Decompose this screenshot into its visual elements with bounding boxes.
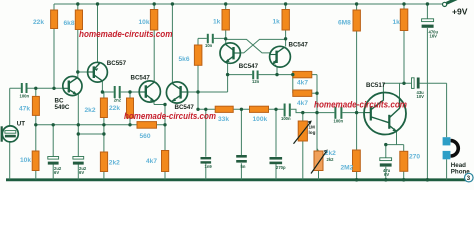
resistor R 22k (33, 10, 58, 29)
wire Q6 emitter column (275, 65, 277, 75)
wire 4k7B right link (312, 92, 317, 94)
svg-text:BC547: BC547 (289, 42, 309, 49)
wire mic column (9, 88, 11, 179)
wire 10n row (198, 37, 226, 39)
svg-text:1k: 1k (213, 19, 221, 26)
transistor U1 BC517 darlington (364, 93, 406, 135)
microphone UT electret (1, 121, 26, 142)
svg-text:BC517: BC517 (366, 82, 386, 89)
wire headphone column (446, 159, 448, 179)
svg-text:560: 560 (140, 133, 151, 140)
resistor R 270 (400, 151, 421, 171)
headphone jack (443, 137, 471, 175)
svg-text:10V: 10V (417, 94, 425, 99)
svg-text:100n: 100n (334, 119, 344, 124)
wire Q2 base branch (78, 71, 88, 73)
svg-text:BC547: BC547 (239, 63, 259, 70)
preset 2k2 (311, 150, 336, 174)
resistor R 4k7 lower horizontal (293, 90, 312, 107)
wire cross couple B to Q5 (240, 39, 285, 53)
svg-text:22k: 22k (33, 19, 44, 26)
switch S1 power (443, 0, 460, 7)
wire 470u column (426, 4, 428, 180)
svg-text:4k7: 4k7 (297, 80, 308, 87)
capacitor C 2u2 second electrolytic (73, 157, 87, 175)
svg-text:5k6: 5k6 (179, 56, 190, 63)
wire pot 1M column (302, 113, 304, 180)
wire cap1 column (52, 125, 54, 180)
resistor R 33k (215, 106, 233, 123)
resistor R 10k top (139, 10, 158, 31)
svg-text:2k2: 2k2 (109, 159, 120, 166)
wire 1k2 node B column (285, 4, 287, 47)
wire mixer row (198, 109, 364, 112)
resistor R 47k (19, 96, 39, 115)
wire 1k3 column (403, 4, 405, 83)
svg-text:100n: 100n (281, 116, 291, 121)
wire Q2 collector (101, 81, 103, 92)
svg-text:100k: 100k (253, 116, 268, 123)
transistor Q6 BC547 (270, 46, 291, 67)
capacitor C 5n (236, 155, 247, 169)
wire 12n row (228, 74, 293, 76)
wire 6k8 column / Q1 collector (77, 4, 79, 78)
svg-text:47k: 47k (19, 105, 30, 112)
wire cross couple A to Q6 (226, 39, 270, 53)
svg-text:homemade-circuits.com: homemade-circuits.com (124, 111, 216, 122)
wire 22k mid column (129, 92, 131, 125)
svg-text:1k: 1k (273, 19, 281, 26)
wire 47k-10k column (35, 88, 37, 179)
svg-text:100n: 100n (20, 93, 30, 98)
transistor Q3 BC547 (139, 81, 160, 102)
capacitor C 100n base (334, 107, 344, 124)
wire 22k column (53, 4, 55, 88)
svg-text:10k: 10k (20, 157, 31, 164)
svg-text:6V: 6V (54, 170, 59, 175)
svg-text:2k2: 2k2 (85, 107, 96, 114)
svg-text:log: log (309, 130, 316, 135)
svg-text:homemade-circuits.com: homemade-circuits.com (79, 29, 173, 40)
svg-text:+9V: +9V (452, 7, 468, 17)
svg-text:6M8: 6M8 (338, 19, 351, 26)
resistor R 560 (137, 122, 157, 140)
svg-text:4k7: 4k7 (297, 100, 308, 107)
svg-text:270: 270 (409, 153, 420, 160)
wire top supply rail (54, 3, 443, 5)
capacitor C 100n mixer (281, 104, 291, 122)
wire ground rail (6, 178, 466, 181)
svg-text:BC547: BC547 (131, 75, 151, 82)
svg-text:6k8: 6k8 (64, 20, 75, 27)
wire 6M8 2M2 column (356, 4, 358, 180)
capacitor C 12n (252, 71, 260, 85)
svg-text:1M: 1M (309, 125, 316, 130)
resistor R 4k7 upper horizontal (293, 71, 312, 86)
resistor R 5k6 (179, 45, 202, 65)
wire BC517 collector a (382, 83, 384, 92)
resistor R 22k mid (109, 98, 134, 118)
wire Q3 collector column (153, 4, 155, 81)
wire 1n9 cap column (205, 109, 207, 179)
wire Q1 emitter column (77, 94, 79, 180)
node 3 marker (465, 173, 474, 182)
wire row B emitter link (78, 133, 104, 135)
wire output row (383, 83, 446, 137)
capacitor C 100n input (20, 83, 30, 98)
resistor R 10k bottom (20, 151, 39, 171)
potentiometer 1M log (294, 121, 316, 144)
wire Q2 emitter column (97, 4, 99, 62)
resistor R 2k2 bottom (100, 152, 120, 172)
wire 1k1 node A column (225, 4, 227, 44)
resistor R 2k2 mid (85, 98, 108, 118)
svg-text:1k: 1k (393, 19, 401, 26)
resistor R 100k (250, 106, 269, 123)
svg-text:5n: 5n (241, 164, 246, 169)
svg-text:4k7: 4k7 (146, 158, 157, 165)
wire Q3 Q4 emitter node column (154, 101, 165, 179)
svg-text:6V: 6V (384, 172, 389, 177)
svg-text:2n2: 2n2 (114, 97, 122, 102)
svg-text:2M2: 2M2 (341, 164, 354, 171)
wire row A feedback (36, 124, 165, 126)
svg-text:UT: UT (17, 121, 25, 128)
svg-text:homemade-circuits.com: homemade-circuits.com (314, 100, 407, 111)
svg-text:2k2: 2k2 (327, 157, 335, 162)
wire 2k2 column (103, 92, 105, 180)
wire 5k6 column (197, 38, 199, 109)
transistor Q2 BC557 (88, 62, 108, 82)
transistor Q4 BC547 (166, 82, 187, 103)
svg-text:10k: 10k (139, 19, 150, 26)
wire Q4 collector column (171, 4, 173, 84)
svg-text:1n9: 1n9 (205, 164, 213, 169)
wire 4k7A right link (312, 75, 317, 151)
capacitor C 270p (270, 157, 286, 170)
wire mic input row (10, 87, 63, 89)
capacitor C 47u output electrolytic (380, 158, 392, 177)
wire 4k7B left link (292, 75, 294, 94)
svg-text:10n: 10n (205, 43, 213, 48)
resistor R 1k first (213, 10, 229, 31)
wire Q4 base row (187, 91, 227, 93)
capacitor C 470u supply electrolytic (422, 19, 439, 39)
wire emitter row BC517 (386, 131, 404, 179)
capacitor C 2u2 first electrolytic (48, 157, 62, 175)
capacitor C 1n9 (201, 157, 213, 169)
svg-text:16V: 16V (430, 34, 438, 39)
svg-text:BC547: BC547 (175, 104, 195, 111)
svg-text:270p: 270p (276, 165, 286, 170)
resistor R 6M8 (338, 10, 360, 31)
svg-text:22k: 22k (109, 105, 120, 112)
wire BC517 collector b (399, 83, 401, 99)
resistor R 4k7 bottom (146, 151, 169, 172)
svg-text:BC557: BC557 (107, 60, 127, 67)
wire 5n cap column (240, 109, 242, 179)
wire Q5 emitter column (226, 62, 228, 92)
svg-text:12n: 12n (252, 79, 260, 84)
svg-text:549C: 549C (55, 104, 70, 111)
wire 270p cap column (275, 109, 277, 179)
resistor R 6k8 (64, 10, 83, 30)
resistor R 1k third (393, 9, 408, 31)
resistor R 2M2 (341, 150, 361, 172)
wire 2n2 row (102, 91, 139, 93)
resistor R 1k second (273, 10, 290, 31)
transistor Q1 BC549C (63, 76, 82, 95)
capacitor C 2n2 (114, 86, 122, 102)
svg-text:33k: 33k (218, 116, 229, 123)
capacitor C 43u coupling electrolytic (412, 78, 425, 100)
transistor Q5 BC547 (220, 43, 240, 63)
svg-text:6V: 6V (79, 170, 84, 175)
wire preset column (317, 113, 319, 180)
capacitor C 10n (205, 34, 214, 48)
